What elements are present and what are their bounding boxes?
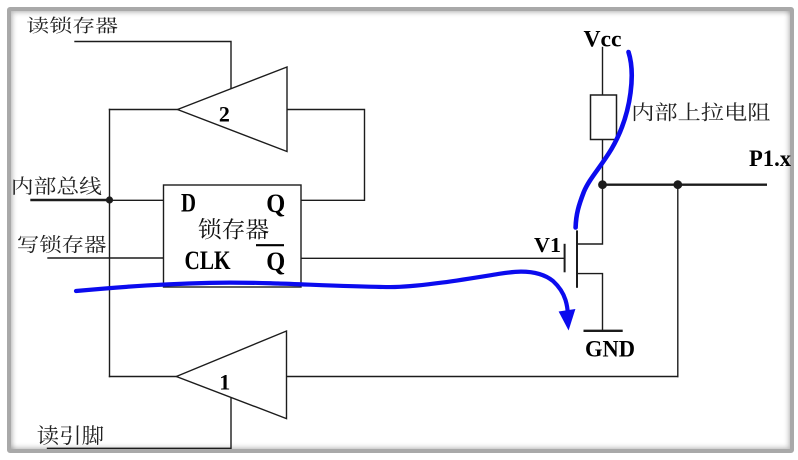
svg-text:Q: Q (266, 189, 285, 218)
transistor V1 gate bar (564, 244, 566, 272)
label 内部上拉电阻 (internal pull-up resistor) (634, 102, 770, 121)
wire: Vcc to pull-up resistor (602, 48, 604, 96)
node: pull-up / drain junction (598, 180, 607, 189)
svg-text:D: D (181, 189, 196, 218)
label 读引脚 (read pin) (38, 425, 104, 445)
svg-text:2: 2 (219, 101, 230, 126)
ground symbol bar (584, 330, 623, 332)
wire: buffer 1 output to right rail (287, 376, 678, 378)
svg-text:Q: Q (266, 247, 285, 276)
wire: latch Q feedback to buffer 2 input (288, 110, 365, 201)
latch label 锁存器 (199, 218, 269, 240)
P1.x node line (603, 184, 768, 186)
wire: V1 drain (578, 185, 603, 244)
svg-text:CLK: CLK (185, 246, 232, 275)
wire: latch Qbar to V1 gate (301, 257, 564, 259)
svg-text:1: 1 (219, 369, 230, 394)
latch box (164, 185, 302, 287)
buffer U2 (read latch) triangle (178, 67, 288, 152)
wire: left vertical rail (internal bus to buffer 1 input) (109, 110, 111, 377)
Qbar overbar (256, 244, 284, 246)
svg-text:P1.x: P1.x (749, 146, 791, 171)
transistor V1 channel bar (576, 230, 578, 287)
svg-text:Vcc: Vcc (584, 26, 622, 51)
node: internal bus junction (106, 196, 113, 203)
wire: write-latch to CLK (48, 257, 164, 259)
label 读锁存器 (read latch) (27, 17, 117, 34)
wire: right vertical rail to P1.x node (677, 185, 679, 377)
wire: bus node to latch D input (110, 199, 164, 201)
label 内部总线 (internal bus) (13, 176, 101, 195)
wire: internal bus (thick) (32, 199, 110, 201)
svg-text:V1: V1 (534, 233, 561, 257)
wire: read-latch control to buffer 2 (75, 42, 231, 89)
wire: read-pin tap from buffer 1 (48, 398, 232, 449)
blue annotation long curve with arrow (76, 272, 568, 314)
wire: buffer 1 input stub (110, 376, 177, 378)
label 写锁存器 (write latch) (18, 235, 106, 253)
buffer U1 (read pin) triangle (176, 331, 286, 419)
wire: buffer 2 output stub (110, 109, 178, 111)
blue arrowhead (559, 309, 576, 331)
blue annotation S-curve near resistor (576, 52, 632, 228)
wire: V1 source to GND (577, 274, 603, 331)
resistor R (internal pull-up) (591, 95, 617, 140)
wire: resistor to P1.x node (602, 140, 604, 185)
node: P1.x / right-rail junction (673, 180, 682, 189)
svg-text:GND: GND (585, 337, 635, 362)
